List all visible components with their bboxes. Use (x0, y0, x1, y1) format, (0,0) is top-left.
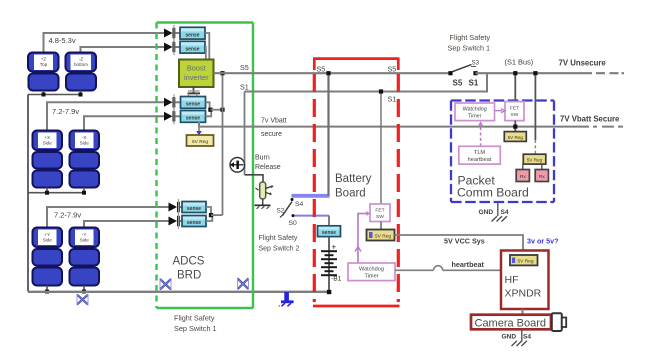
svg-text:sense: sense (185, 32, 199, 38)
wire ground bus (28, 291, 329, 293)
TLM heartbeat box (459, 146, 501, 164)
battery board border top (313, 59, 400, 70)
burn release initiator circle (230, 158, 245, 173)
wire SB6 to junction (206, 215, 212, 221)
svg-text:7v Vbatt: 7v Vbatt (261, 118, 287, 125)
wire S1 bus drop from switch (245, 73, 488, 91)
battery B1 plates (321, 251, 337, 275)
junction group1 bottom (42, 93, 46, 97)
wire circle to thermal knife (245, 175, 264, 182)
wire heartbeat (395, 266, 501, 271)
HF XPNDR board border (501, 251, 549, 310)
5V Reg ADCS (187, 135, 214, 146)
svg-text:Rx: Rx (539, 174, 545, 180)
svg-text:5V VCC Sys: 5V VCC Sys (444, 237, 485, 246)
wire S4 blue (292, 194, 330, 198)
wire solar +Y Side to diode D5 (47, 207, 169, 228)
sense box battery (318, 226, 341, 237)
svg-text:S1: S1 (388, 95, 397, 104)
solar cell group3 col2 b (70, 268, 100, 286)
wire SB1 to boost (205, 33, 209, 60)
wire left return rail (27, 95, 29, 292)
svg-text:XPNDR: XPNDR (505, 288, 542, 300)
svg-text:7.2-7.9v: 7.2-7.9v (52, 107, 79, 116)
solar panel -X Side (70, 131, 100, 151)
wire Vbatt secure dashed end (593, 126, 623, 128)
wire Vbatt secure bus (199, 122, 589, 127)
svg-text:Burn: Burn (255, 155, 270, 162)
wire solar +X Side to diode D3 (47, 102, 165, 130)
violet link watchdog to FET packet (495, 109, 506, 113)
svg-text:sense: sense (187, 220, 201, 226)
svg-text:inverter: inverter (184, 73, 209, 82)
sense box SB1 (180, 27, 205, 39)
junction S5 bus collector rail (220, 71, 224, 75)
wire 5V VCC Sys (395, 235, 524, 255)
junction group1 bottom col2 (79, 93, 83, 97)
solar panel +X Side (33, 131, 63, 151)
svg-text:Flight Safety: Flight Safety (450, 33, 491, 42)
svg-text:sense: sense (187, 206, 201, 212)
junction FET output Vbatt bus (513, 125, 517, 129)
wire S5 collector rail (222, 73, 224, 215)
PART:hf (471, 251, 566, 347)
svg-text:ADCS: ADCS (173, 256, 205, 268)
sep switch 2 blade (283, 202, 293, 216)
contact S4 (291, 198, 294, 201)
svg-text:Release: Release (255, 164, 281, 171)
wire SB3 to junction (206, 102, 210, 109)
svg-text:Board: Board (335, 188, 366, 200)
diode D4 (164, 108, 181, 124)
PART:topright (448, 33, 625, 124)
svg-text:SW: SW (511, 112, 519, 118)
svg-text:sense: sense (186, 102, 200, 108)
5V Reg packet 2 (523, 154, 546, 164)
svg-text:-B1: -B1 (331, 276, 342, 283)
svg-text:Sep Switch 2: Sep Switch 2 (259, 246, 300, 253)
sense box SB2 (180, 41, 205, 53)
wire SB2 to boost (204, 47, 207, 60)
arrow into ADCS 5VReg (196, 131, 202, 136)
wire bus to FET SW packet (514, 73, 516, 101)
svg-text:7.2-7.9v: 7.2-7.9v (54, 211, 81, 220)
sep switch bowtie ADCS right (238, 279, 249, 290)
svg-text:S4: S4 (501, 209, 509, 216)
wire pair3 junction to rail (211, 214, 223, 216)
svg-text:S4: S4 (295, 201, 304, 208)
wire S1 drop to FET SW (380, 92, 382, 205)
junction group2 bottom col2 (82, 191, 86, 195)
camera icon (552, 313, 566, 331)
junction group2 bottom (45, 191, 49, 195)
sense box SB3 (181, 97, 206, 109)
wire group3 bottoms to ground bus (47, 286, 84, 292)
junction battery bus (327, 290, 331, 294)
wire pair2 junction to S5 rail (210, 109, 222, 111)
5V Reg packet 1 (504, 132, 526, 142)
wire FET to 5VReg (380, 222, 382, 230)
packet comm board border (451, 101, 554, 203)
svg-text:Side: Side (43, 237, 53, 242)
svg-text:sense: sense (186, 116, 200, 122)
svg-text:sense: sense (185, 46, 199, 52)
sep switch 2 pole tick (280, 214, 284, 218)
svg-text:+: + (332, 243, 337, 252)
solar cell group1 col1 (29, 74, 59, 91)
sense box SB6 (182, 216, 206, 227)
thermal knife resistor (256, 182, 274, 199)
svg-text:5V Reg: 5V Reg (192, 139, 208, 145)
wire SB4 to junction (206, 110, 212, 117)
wire solar -X Side to diode D4 (84, 116, 165, 130)
violet dashed arrow TLM to watchdog (478, 121, 484, 146)
svg-text:Side: Side (80, 237, 90, 242)
FET SW packet (505, 102, 524, 121)
Watchdog Timer battery (348, 263, 395, 281)
wire sense to battery (328, 237, 330, 292)
PART:middle (199, 63, 623, 307)
5V Reg HF (510, 255, 538, 265)
5V Reg battery (367, 230, 395, 241)
HF ground symbol (512, 341, 528, 346)
junction pair2 (208, 108, 212, 112)
wire 5VReg2 to Rx2 (541, 164, 543, 169)
svg-text:-Z: -Z (79, 57, 84, 62)
PART:packet (451, 71, 554, 221)
svg-text:Side: Side (43, 140, 53, 145)
sep switch 1 blade (452, 65, 472, 72)
wire dashed segment to 5VReg2 (534, 140, 536, 154)
sense box SB5 (182, 202, 206, 213)
contact S0 (292, 214, 295, 217)
svg-text:+X: +X (44, 135, 50, 140)
svg-text:5V Reg: 5V Reg (375, 234, 391, 240)
svg-text:+Y: +Y (44, 232, 50, 237)
boost inverter U1 (179, 60, 214, 88)
solar cell group2 col1 b (33, 171, 63, 188)
label GND S4 packet (479, 203, 509, 217)
junction bus 5VReg2 drop (533, 71, 537, 75)
wire group1 bottoms to left rail (28, 91, 81, 95)
svg-text:SW: SW (376, 214, 384, 220)
wire battery top rail from S5 bus (327, 73, 329, 196)
svg-text:Sep Switch 1: Sep Switch 1 (174, 324, 217, 333)
svg-text:(S1 Bus): (S1 Bus) (505, 58, 534, 67)
svg-text:Timer: Timer (468, 113, 482, 119)
PART:left (28, 33, 329, 305)
svg-text:TLM: TLM (474, 150, 486, 156)
svg-text:FET: FET (510, 106, 519, 112)
svg-text:S2: S2 (277, 208, 285, 215)
svg-text:+Z: +Z (41, 57, 47, 62)
solar panel -Y Side (70, 228, 100, 248)
wire HF to camera board (522, 309, 524, 315)
wire S0 to sense (328, 216, 330, 226)
svg-text:S1: S1 (469, 79, 479, 88)
svg-text:HF: HF (505, 274, 519, 286)
svg-text:5V Reg: 5V Reg (527, 157, 543, 162)
svg-text:Flight Safety: Flight Safety (174, 314, 215, 323)
ADCS board border (157, 23, 254, 309)
wire 7V unsecure bus (476, 72, 593, 74)
sep switch bowtie on bus left (77, 295, 88, 305)
wire S0 blue (295, 215, 330, 217)
junction group3 bus col2 (82, 290, 86, 294)
svg-text:Comm Board: Comm Board (457, 186, 529, 200)
wire 5VReg2 to Rx1 (522, 164, 524, 169)
PART:battery (313, 59, 559, 306)
svg-text:-X: -X (82, 135, 87, 140)
svg-text:S5: S5 (317, 65, 326, 74)
svg-text:GND: GND (502, 334, 517, 341)
svg-text:7V Unsecure: 7V Unsecure (559, 59, 607, 68)
diode D3 (164, 94, 181, 110)
solar panel +Z Top (28, 53, 59, 72)
svg-text:S0: S0 (289, 220, 298, 227)
Rx box 2 (535, 170, 548, 182)
svg-text:3v or 5v?: 3v or 5v? (527, 237, 559, 246)
wire unsecure dashed end (596, 72, 624, 74)
svg-text:S1: S1 (240, 83, 249, 92)
solar cell group2 col2 b (70, 171, 100, 188)
svg-text:Rx: Rx (520, 174, 526, 180)
svg-text:Battery: Battery (335, 173, 372, 185)
wire bus to 5VReg2 drop (534, 73, 536, 140)
solar cell group1 col2 (66, 74, 96, 91)
svg-text:heartbeat: heartbeat (452, 260, 485, 269)
junction group3 bus (45, 290, 49, 294)
junction bus FET drop (513, 71, 517, 75)
violet wire watchdog to FET (355, 211, 370, 263)
svg-text:Sep Switch 1: Sep Switch 1 (448, 44, 491, 53)
svg-text:FET: FET (375, 208, 384, 214)
svg-text:7V Vbatt Secure: 7V Vbatt Secure (560, 115, 620, 124)
wire SB5 to junction (206, 207, 211, 215)
camera board border (471, 315, 551, 330)
solar panel +Y Side (33, 228, 63, 248)
battery board border right dashed (397, 74, 400, 302)
knife ground (255, 199, 271, 209)
svg-text:Top: Top (40, 62, 48, 67)
svg-text:bottom: bottom (74, 62, 88, 67)
label GND S4 HF (502, 330, 532, 342)
wire FET packet to 5VReg1 (514, 121, 516, 132)
sep switch bowtie ADCS left (160, 279, 171, 290)
battery board border bottom (313, 305, 400, 308)
svg-text:Boost: Boost (187, 64, 206, 73)
solar panel -Z bottom label cell (66, 53, 97, 72)
svg-text:Watchdog: Watchdog (359, 267, 384, 273)
svg-text:5V Reg: 5V Reg (508, 135, 524, 140)
svg-text:S5: S5 (453, 79, 463, 88)
packet ground symbol (492, 216, 508, 221)
solar cell group3 col2 a (70, 249, 100, 266)
wire S5 bus (214, 72, 451, 74)
svg-text:Camera Board: Camera Board (475, 317, 547, 329)
wire burn release feed (244, 92, 246, 175)
svg-text:Flight Safety: Flight Safety (259, 235, 298, 242)
diode D5 (169, 199, 183, 215)
contact S5 side (448, 71, 452, 75)
solar cell group3 col1 b (33, 268, 63, 286)
wire solar -Y Side to diode D6 (84, 221, 169, 228)
PART:adcs (157, 23, 254, 334)
boost bottom connector (188, 87, 201, 97)
wire group2 bottoms to left rail (28, 188, 84, 193)
FET SW battery (370, 204, 390, 222)
diode D6 (169, 213, 183, 229)
svg-text:BRD: BRD (177, 270, 201, 282)
diode D1 (164, 25, 180, 41)
solar cell group3 col1 a (33, 249, 63, 266)
wire solar -Z bottom to diode D2 (81, 47, 165, 53)
sep switch 1 tick (471, 66, 476, 68)
solar cell group2 col2 a (70, 152, 100, 169)
svg-text:S4: S4 (523, 334, 531, 341)
svg-text:5V Reg: 5V Reg (518, 259, 534, 265)
junction pair3 (209, 213, 213, 217)
Watchdog Timer packet (455, 103, 495, 121)
svg-text:4.8-5.3v: 4.8-5.3v (49, 36, 76, 45)
junction pair2 rail (220, 108, 224, 112)
solar cell group2 col1 a (33, 152, 63, 169)
svg-text:heartbeat: heartbeat (468, 157, 492, 163)
contact S1 side (473, 71, 477, 75)
wire ADCS 5VReg feed (198, 123, 200, 131)
wire solar +Z top to diode D1 (44, 33, 165, 53)
svg-text:Timer: Timer (364, 274, 378, 280)
svg-text:S3: S3 (472, 60, 480, 67)
svg-text:-Y: -Y (82, 232, 87, 237)
svg-text:S5: S5 (240, 63, 249, 72)
diode D2 (164, 39, 180, 55)
sense box SB4 (181, 111, 206, 123)
svg-text:sense: sense (322, 230, 336, 236)
junction S5 bus battery rail (326, 71, 330, 75)
Rx box 1 (516, 170, 529, 182)
svg-text:Watchdog: Watchdog (463, 107, 487, 113)
ground symbol chassis blue (279, 292, 294, 307)
svg-text:S5: S5 (388, 65, 397, 74)
junction S1 rail FET (379, 89, 383, 93)
battery board border left dashed (313, 74, 316, 302)
svg-text:GND: GND (479, 209, 494, 216)
svg-text:Side: Side (80, 140, 90, 145)
svg-text:secure: secure (261, 131, 282, 138)
